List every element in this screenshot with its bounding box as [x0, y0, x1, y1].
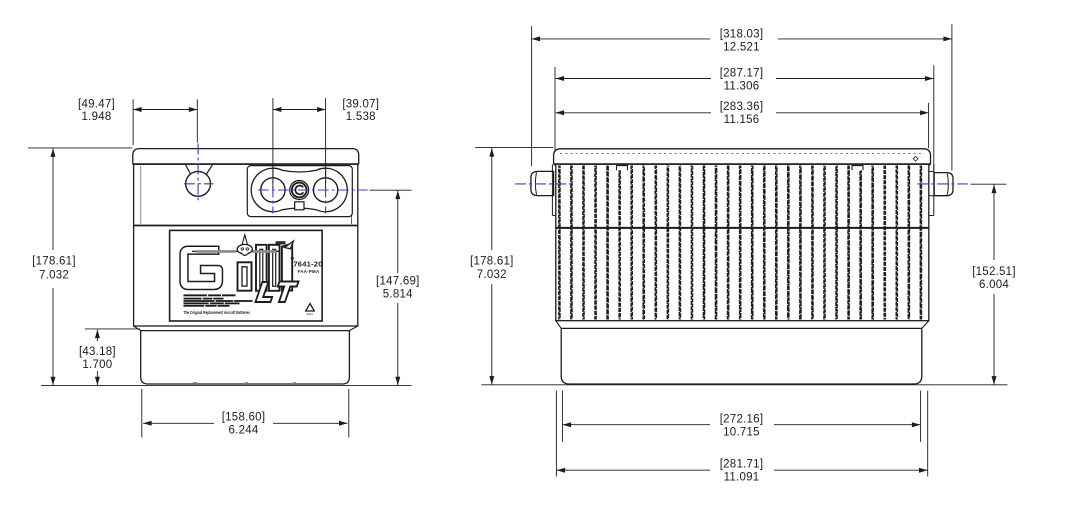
- svg-text:11.156: 11.156: [724, 114, 760, 126]
- svg-text:[287.17]: [287.17]: [720, 67, 764, 79]
- svg-text:11.306: 11.306: [724, 80, 760, 92]
- svg-text:1.700: 1.700: [82, 359, 112, 371]
- svg-text:10.715: 10.715: [723, 427, 760, 439]
- svg-text:12.521: 12.521: [723, 42, 760, 54]
- svg-text:[43.18]: [43.18]: [79, 346, 116, 358]
- svg-text:[318.03]: [318.03]: [720, 29, 764, 41]
- svg-text:6.244: 6.244: [228, 425, 258, 437]
- svg-text:[39.07]: [39.07]: [342, 98, 379, 110]
- svg-text:1.538: 1.538: [346, 111, 376, 123]
- svg-text:[281.71]: [281.71]: [720, 458, 764, 470]
- svg-text:1.948: 1.948: [81, 111, 111, 123]
- svg-text:7.032: 7.032: [477, 269, 507, 281]
- svg-text:7641-20: 7641-20: [293, 260, 322, 269]
- svg-text:6.004: 6.004: [979, 279, 1009, 291]
- svg-text:[152.51]: [152.51]: [972, 266, 1016, 278]
- svg-text:FAA-PMA: FAA-PMA: [298, 269, 320, 274]
- svg-text:7.032: 7.032: [39, 270, 69, 282]
- svg-text:[283.36]: [283.36]: [720, 101, 764, 113]
- svg-text:[178.61]: [178.61]: [32, 256, 76, 268]
- svg-text:The Original Replacement Aircr: The Original Replacement Aircraft Batter…: [184, 310, 251, 315]
- svg-text:GILL: GILL: [307, 312, 314, 316]
- svg-text:5.814: 5.814: [383, 289, 413, 301]
- svg-text:[147.69]: [147.69]: [376, 276, 420, 288]
- svg-text:11.091: 11.091: [724, 471, 760, 483]
- svg-text:[178.61]: [178.61]: [470, 256, 514, 268]
- svg-text:[272.16]: [272.16]: [720, 413, 764, 425]
- svg-text:[158.60]: [158.60]: [222, 412, 266, 424]
- svg-text:[49.47]: [49.47]: [78, 98, 115, 110]
